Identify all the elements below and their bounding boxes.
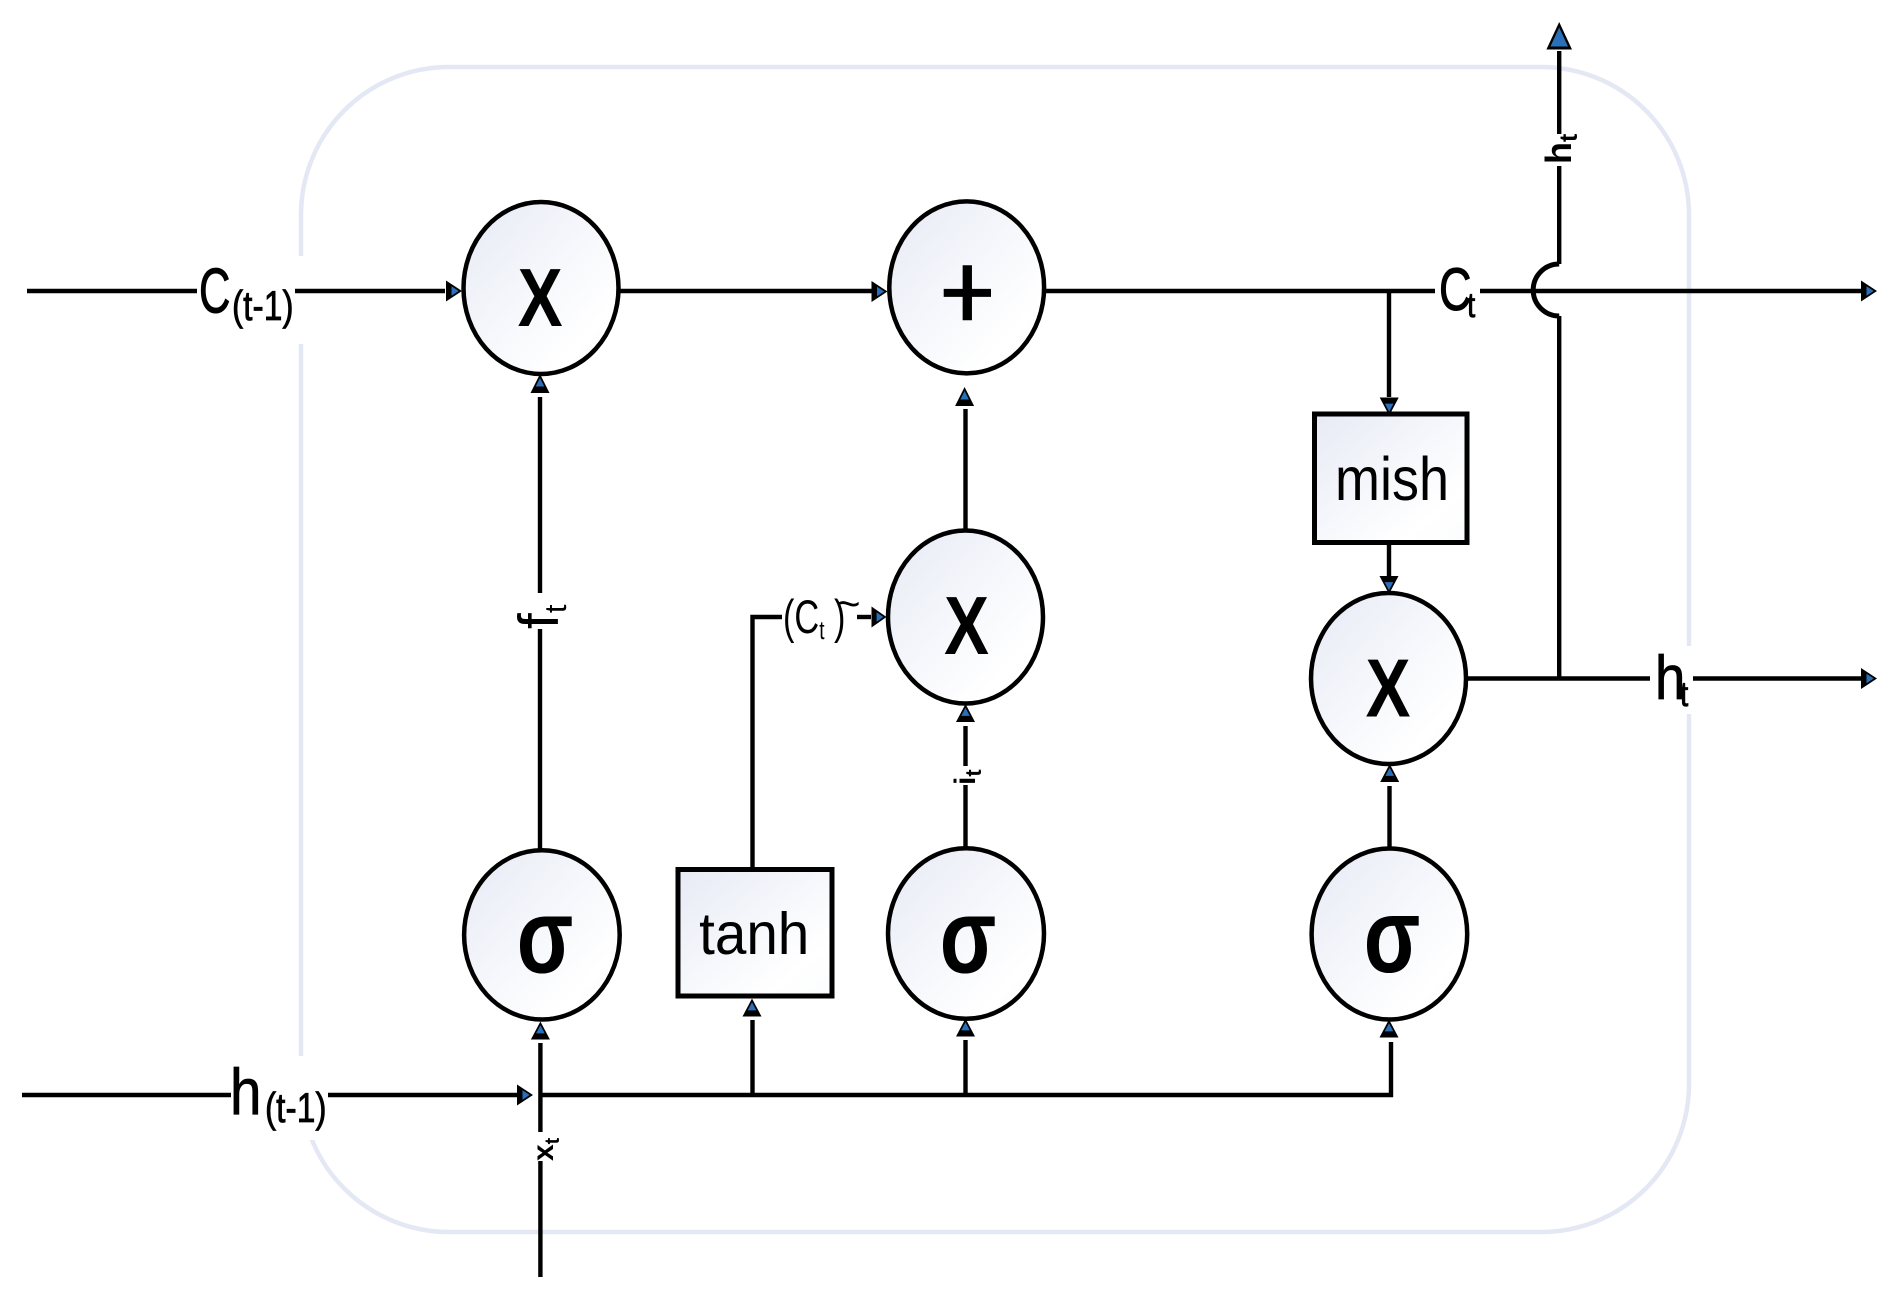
- wire C(t-1) to X1: [295, 289, 445, 293]
- arrowhead big top h_t: [1546, 22, 1572, 50]
- svg-text:ht: ht: [1538, 133, 1583, 164]
- sigma gate 2: [888, 848, 1044, 1019]
- wire x_t lower segment: [538, 1161, 542, 1277]
- mish box: [1315, 414, 1468, 543]
- wire C(t-1) input segment: [27, 289, 197, 293]
- svg-text:σ: σ: [940, 878, 997, 996]
- arrowhead on h(t-1) line: [517, 1085, 533, 1106]
- svg-text:it: it: [949, 769, 986, 785]
- wire Ct label to right edge: [1480, 289, 1861, 293]
- svg-text:σ: σ: [1364, 877, 1421, 995]
- svg-text:σ: σ: [517, 878, 574, 996]
- svg-text:X: X: [518, 252, 563, 344]
- arrowhead into plus from left: [872, 281, 888, 302]
- arrowhead right end of C line: [1861, 281, 1877, 302]
- arrowhead into X1: [446, 281, 462, 302]
- svg-text:mish: mish: [1335, 446, 1449, 514]
- sigma gate 3: [1312, 849, 1468, 1020]
- wire h_t riser mid segment: [1557, 166, 1561, 264]
- svg-text:X: X: [1366, 643, 1411, 735]
- label backing h(t-1): [228, 1056, 335, 1140]
- svg-text:ft: ft: [507, 604, 573, 629]
- wire sigma2 to i_t label: [963, 785, 967, 848]
- arrowhead into plus from below: [955, 387, 974, 406]
- arrowhead into X3 from below: [1380, 764, 1399, 782]
- wire h_t riser top segment: [1557, 51, 1561, 134]
- arrowhead into X2 from left: [872, 607, 887, 628]
- svg-text:h: h: [230, 1055, 261, 1128]
- sigma gate 1: [464, 850, 620, 1019]
- multiply node X2: [888, 531, 1043, 704]
- label backing C(t-1): [197, 256, 311, 344]
- arrowhead into X3 from above: [1380, 576, 1399, 594]
- wire x_t upper segment: [538, 1043, 542, 1132]
- arrowhead into sigma1 from below: [531, 1022, 550, 1040]
- arrowhead into sigma2 from below: [956, 1019, 975, 1037]
- wire branch up to tanh: [750, 1020, 754, 1095]
- wire candidate dash: [857, 615, 871, 619]
- wire plus to Ct label: [1044, 289, 1435, 293]
- arrowhead into X2 from below: [956, 704, 975, 722]
- svg-text:(t-1): (t-1): [265, 1086, 327, 1132]
- svg-text:t: t: [1680, 675, 1688, 714]
- arrowhead into X1 from below: [531, 374, 550, 393]
- wire X3 to h_t output: [1466, 676, 1650, 680]
- wire X2 to plus: [963, 409, 967, 531]
- cell body rounded rectangle: [301, 67, 1689, 1232]
- arrowhead into sigma3 from below: [1380, 1020, 1399, 1038]
- svg-text:tanh: tanh: [699, 902, 809, 967]
- label backing h_t output: [1648, 646, 1695, 714]
- svg-text:~: ~: [836, 580, 861, 627]
- wire hop arc over C line: [1533, 264, 1559, 316]
- wire h(t-1) across to sigma3: [540, 1042, 1391, 1095]
- arrowhead right end of h_t line: [1861, 668, 1877, 689]
- wire tanh to candidate elbow: [753, 617, 783, 869]
- wire mish to X3: [1387, 543, 1391, 577]
- arrowhead into mish from above: [1380, 398, 1399, 416]
- wire sigma3 to X3: [1387, 786, 1391, 849]
- add node plus: [889, 201, 1044, 373]
- multiply node X3: [1311, 593, 1466, 764]
- wire branch up to sigma2: [963, 1040, 967, 1095]
- wire Ct branch down to mish: [1387, 291, 1391, 397]
- label backing C_t: [1434, 258, 1482, 328]
- svg-text:(t-1): (t-1): [232, 284, 294, 330]
- wire h(t-1) input segment: [22, 1093, 231, 1097]
- svg-text:C: C: [199, 257, 230, 327]
- svg-text:xt: xt: [527, 1137, 564, 1161]
- svg-text:t: t: [1467, 286, 1475, 325]
- wire i_t label to X2: [963, 726, 967, 766]
- wire f_t upper segment: [538, 397, 542, 593]
- arrowhead into tanh from below: [743, 999, 762, 1017]
- wire X1 to plus: [617, 289, 872, 293]
- wire f_t lower segment: [538, 629, 542, 851]
- tanh box: [678, 870, 832, 997]
- wire h_t label to right edge: [1693, 676, 1861, 680]
- svg-text:X: X: [944, 580, 989, 672]
- multiply node X1: [464, 202, 619, 374]
- wire h_t riser lower segment: [1557, 316, 1561, 679]
- wire h(t-1) label to arrow: [328, 1093, 518, 1097]
